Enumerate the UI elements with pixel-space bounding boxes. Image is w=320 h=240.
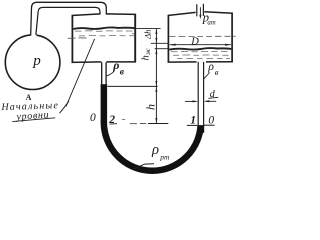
svg-text:рт: рт — [159, 153, 170, 162]
right tank top edge — [168, 12, 233, 16]
right tank bottom edge — [168, 61, 233, 63]
leader slash from text — [60, 101, 69, 113]
tick of level line outside right wall — [233, 35, 236, 37]
left tank bottom edge — [72, 61, 137, 64]
level line 0-0 solid segment through dim line — [148, 123, 168, 125]
p_at down arrow — [199, 7, 201, 16]
left tank drop pipe walls — [102, 62, 106, 85]
svg-text:ат: ат — [207, 20, 215, 27]
right tube walls (from right tank down) — [198, 62, 203, 126]
left tank left wall — [71, 15, 73, 63]
pipe outer wall from vessel to left tank — [31, 2, 107, 34]
svg-text:0: 0 — [208, 114, 214, 126]
mercury column right leg — [197, 125, 204, 133]
dh bottom arrow — [155, 38, 157, 43]
svg-text:в: в — [215, 67, 219, 77]
U-bend mercury tube — [104, 122, 201, 170]
gap at circle top for pipe — [31, 33, 36, 38]
svg-text:h: h — [144, 104, 158, 110]
pipe inner wall — [36, 7, 100, 34]
svg-text:0: 0 — [90, 112, 96, 124]
mercury level line left leg (h top reference) — [107, 85, 157, 87]
label rho_v left with leader — [106, 72, 114, 76]
h top arrow — [155, 87, 157, 92]
water surface shading dashes row 2 — [79, 34, 135, 36]
svg-text:1: 1 — [190, 114, 196, 126]
vertical dimension line — [155, 29, 157, 124]
h_zh top arrow — [155, 49, 157, 54]
mercury column left leg — [101, 84, 108, 123]
right tank left wall — [167, 15, 169, 62]
svg-text:Δh: Δh — [143, 30, 153, 40]
level line 0-0 dashes — [130, 123, 146, 125]
svg-text:ρ: ρ — [151, 142, 159, 158]
svg-text:в: в — [120, 67, 125, 77]
label rho_rt with leader — [133, 164, 154, 170]
initial level reference line A extension — [136, 28, 160, 30]
d dimension line left segment with arrow — [185, 100, 196, 102]
label rho_v right with leader — [204, 73, 210, 79]
svg-text:D: D — [190, 36, 199, 47]
long leader to tank level — [66, 39, 95, 107]
lowered level tick crossing left wall — [68, 37, 87, 39]
small dash right of 2 — [122, 119, 125, 121]
h_zh bottom arrow — [155, 81, 157, 86]
underline under text — [12, 118, 55, 122]
svg-text:ρ: ρ — [207, 61, 214, 73]
d dimension line right segment with arrow — [206, 100, 217, 102]
right tank water surface — [169, 48, 231, 50]
diameter D arrow line — [170, 44, 231, 46]
left tank right wall — [134, 14, 136, 62]
level line under 0 right — [204, 124, 215, 126]
arrowheads on dimension line: dh top — [155, 29, 157, 34]
white patch above right leg mercury level — [196, 112, 205, 125]
right tank right wall — [231, 13, 233, 63]
level line B (new level right tank ref) — [151, 42, 168, 44]
atmosphere pipe on right tank top — [197, 4, 204, 17]
initial level dash-dot line in right tank — [170, 35, 231, 37]
right tank surface shading dashes — [171, 50, 228, 52]
level line under 1 — [187, 124, 197, 126]
h bottom arrow — [155, 118, 157, 123]
vessel circle (pressure vessel p) — [5, 35, 60, 90]
left tank water surface (initial level) — [73, 27, 134, 29]
svg-text:ρ: ρ — [112, 58, 119, 72]
level line C (water surface ref) — [155, 48, 169, 50]
left tank top edge — [72, 14, 137, 16]
water surface shading dashes row 1 — [75, 30, 133, 32]
svg-text:p: p — [32, 53, 41, 69]
